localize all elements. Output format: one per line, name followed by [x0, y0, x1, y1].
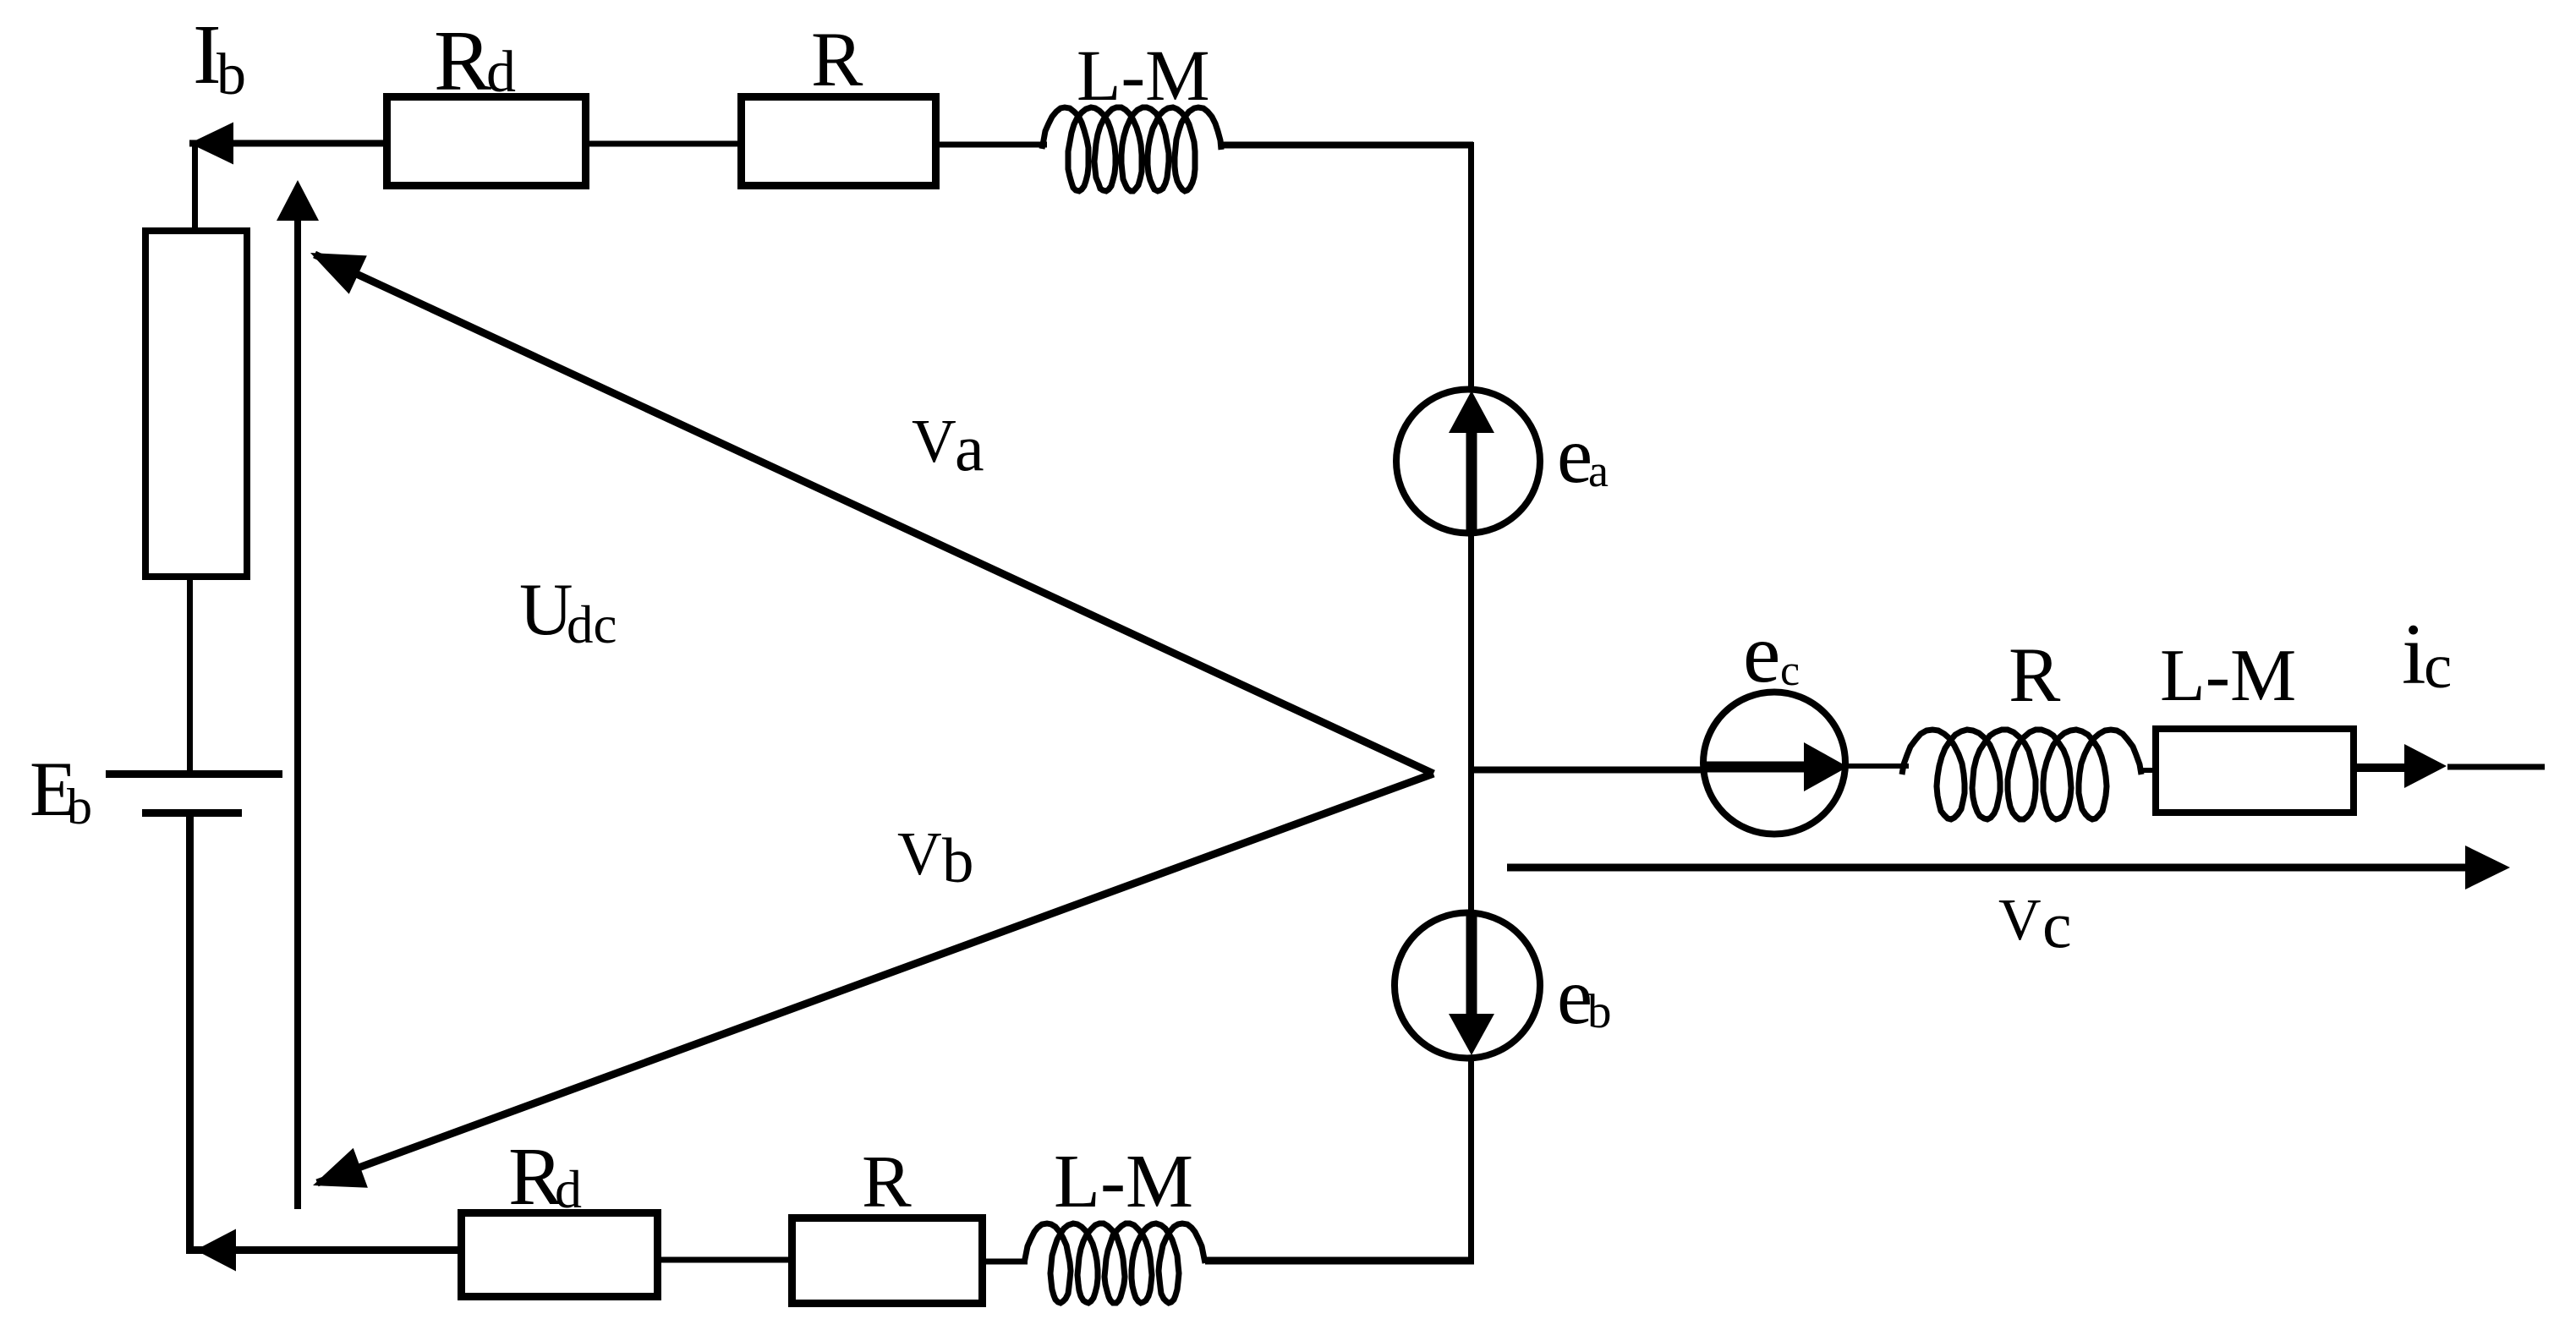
wire: top branch segment from Ib arrow to Rd: [189, 140, 389, 147]
svg-text:L-M: L-M: [1077, 35, 1210, 116]
label R (top): [811, 16, 863, 102]
wire: from center node to ec source: [1474, 767, 1713, 774]
svg-text:b: b: [67, 779, 92, 835]
label eb: [1557, 951, 1612, 1041]
label Va: [912, 407, 984, 484]
label Rd (bottom): [508, 1131, 582, 1222]
arrow inside ea (pointing up): [1449, 391, 1494, 531]
svg-text:d: d: [555, 1159, 582, 1219]
wire: between R and L-M coil (top branch): [940, 142, 1047, 148]
svg-text:V: V: [912, 407, 956, 475]
svg-text:R: R: [811, 16, 863, 102]
resistor Rd (bottom branch): [462, 1213, 658, 1297]
EMF source ea (circle): [1396, 390, 1540, 534]
EMF source eb (circle): [1395, 913, 1540, 1059]
impedance L-M box (right branch): [2156, 729, 2354, 813]
svg-text:R: R: [434, 14, 491, 109]
wire: between Rd and R (top branch): [589, 141, 741, 147]
svg-text:a: a: [1588, 446, 1609, 496]
label Rd (top): [434, 14, 516, 109]
resistor Rb: [145, 231, 247, 577]
arrowhead Va: [310, 253, 367, 294]
svg-text:e: e: [1743, 606, 1780, 700]
wire: from bottom L-M coil to bottom-right corner: [1205, 1257, 1474, 1265]
label R (right branch): [2009, 632, 2061, 718]
arrowhead Ib (current direction, pointing left): [189, 123, 233, 165]
svg-text:b: b: [942, 826, 974, 896]
label L-M (right branch): [2160, 635, 2296, 717]
arrow inside ec (pointing right): [1705, 742, 1848, 791]
wire: right vertical bus from top corner down to bottom corner: [1468, 142, 1474, 1262]
resistor Rd (top branch): [387, 97, 586, 186]
svg-text:c: c: [2424, 632, 2452, 702]
svg-text:L-M: L-M: [2160, 635, 2296, 717]
svg-text:R: R: [862, 1141, 912, 1223]
inductor coil (right branch, under R label): [1902, 730, 2141, 819]
wire: thin output line after ic arrow: [2447, 764, 2545, 770]
wire: from battery Eb down to bottom-left corner: [190, 817, 462, 1251]
label Udc: [519, 569, 617, 654]
phase voltage arrow Vc (long horizontal): [1507, 846, 2510, 889]
EMF source ec (circle): [1703, 692, 1845, 835]
svg-text:a: a: [955, 411, 984, 484]
label Vb: [897, 819, 974, 896]
svg-text:b: b: [1587, 985, 1612, 1038]
arrow ic out of L-M box: [2357, 744, 2447, 788]
label R (bottom): [862, 1141, 912, 1223]
svg-text:V: V: [897, 819, 942, 888]
svg-text:L-M: L-M: [1054, 1140, 1193, 1223]
label ic: [2402, 606, 2452, 703]
label Vc: [1998, 888, 2072, 961]
svg-text:V: V: [1998, 888, 2042, 953]
wire: from Rb down to battery Eb: [187, 580, 193, 771]
label Ib: [193, 7, 246, 107]
svg-text:U: U: [519, 569, 573, 651]
svg-text:e: e: [1557, 410, 1592, 500]
arrowhead Vb: [313, 1148, 368, 1188]
wire: stub from Ib arrow down to Rb: [192, 145, 198, 230]
wire: DC link voltage arrow Udc (vertical): [294, 216, 301, 1209]
svg-text:b: b: [216, 42, 246, 107]
svg-text:R: R: [2009, 632, 2061, 718]
svg-text:c: c: [1780, 647, 1800, 695]
wire: between Rd and R (bottom branch): [661, 1257, 792, 1263]
wire: from coil to L-M box (right branch): [2141, 768, 2156, 773]
label Eb: [30, 746, 92, 835]
label ec: [1743, 606, 1800, 700]
label ea: [1557, 410, 1609, 500]
arrowhead Ib return (bottom-left, pointing left): [195, 1229, 236, 1272]
resistor R (top branch): [742, 97, 936, 186]
inductor L-M (bottom branch): [1024, 1223, 1205, 1303]
battery Eb negative plate (short): [142, 809, 242, 817]
svg-text:i: i: [2402, 606, 2426, 703]
arrowhead Udc: [277, 180, 319, 221]
arrow inside eb (pointing down): [1449, 915, 1494, 1055]
wire: from ec to coil (right branch): [1848, 763, 1909, 769]
inductor L-M (top branch): [1042, 107, 1221, 191]
label L-M (bottom): [1054, 1140, 1193, 1223]
wire: phase voltage arrow Vb (diagonal line to lower left): [317, 774, 1433, 1183]
wire: phase voltage arrow Va (diagonal line to upper left): [315, 254, 1433, 774]
resistor R (bottom branch): [792, 1218, 983, 1304]
battery Eb positive plate (long): [106, 770, 282, 778]
wire: from top L-M coil to top-right corner: [1221, 142, 1473, 149]
svg-text:c: c: [2042, 888, 2072, 961]
wire: between R and L-M coil (bottom branch): [986, 1259, 1028, 1265]
svg-text:d: d: [486, 40, 516, 105]
svg-text:dc: dc: [567, 595, 617, 654]
label L-M (top): [1077, 35, 1210, 116]
